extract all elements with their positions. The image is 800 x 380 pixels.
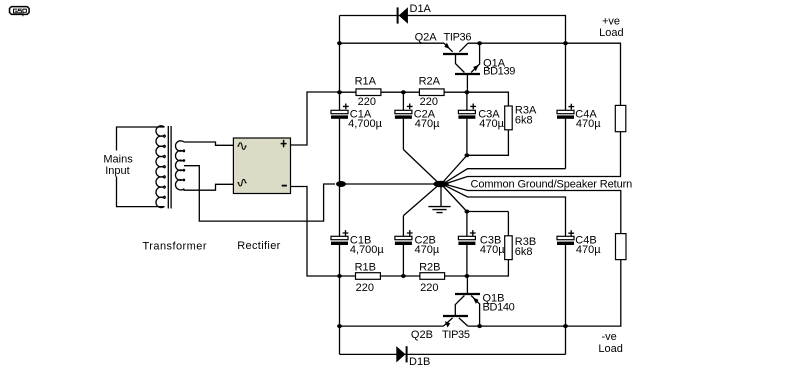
svg-text:BD140: BD140	[483, 302, 515, 314]
label C4A	[575, 108, 597, 120]
diode D1A	[398, 7, 408, 23]
node ground junction on left rail	[336, 181, 346, 187]
svg-text:470µ: 470µ	[479, 118, 504, 130]
svg-text:-ve: -ve	[602, 331, 617, 343]
svg-text:6k8: 6k8	[515, 114, 533, 126]
wire fan to -ve load top	[448, 185, 621, 234]
label R1A	[355, 75, 377, 87]
wire fan to C4B top	[447, 186, 566, 236]
label TIP35	[442, 329, 470, 341]
label C3B	[480, 235, 501, 247]
wire secondary center tap to ground node	[184, 166, 335, 221]
svg-text:220: 220	[358, 96, 376, 108]
label C1B	[350, 235, 371, 247]
wire negative raw rail y326 left segment	[340, 325, 444, 327]
wire positive output rail y43 right segment	[468, 43, 621, 105]
wire C3A node diagonal to blob	[444, 155, 467, 181]
wire ground wire from left rail to blob	[340, 183, 442, 185]
label C4A value 470u	[576, 118, 601, 130]
label R3A value 6k8	[515, 114, 533, 126]
svg-text:D1A: D1A	[410, 3, 432, 15]
label Mains Input	[103, 153, 133, 176]
label C3A	[478, 109, 500, 121]
label R2B	[419, 261, 440, 273]
label C2A value 470u	[415, 118, 440, 130]
svg-text:4,700µ: 4,700µ	[348, 118, 383, 130]
capacitor C4A	[557, 104, 574, 169]
label R1B value 220	[356, 282, 374, 294]
svg-text:R2B: R2B	[419, 261, 440, 273]
transformer primary winding	[156, 126, 165, 208]
svg-text:R2A: R2A	[419, 75, 441, 87]
label Q1A	[483, 57, 506, 69]
capacitor C1A	[331, 104, 349, 119]
svg-text:BD139: BD139	[483, 65, 515, 77]
label Q2B	[411, 329, 433, 341]
svg-text:TIP35: TIP35	[442, 329, 470, 341]
label R3A	[515, 105, 537, 117]
resistor R2A	[419, 89, 444, 96]
label Load top	[599, 27, 623, 39]
svg-text:Q2B: Q2B	[411, 329, 433, 341]
resistor -ve load	[616, 234, 627, 260]
transistor Q2B TIP35	[443, 316, 468, 328]
wire positive raw rail y43 left segment	[340, 42, 445, 44]
svg-text:R1B: R1B	[355, 261, 376, 273]
label Q1B	[483, 293, 505, 305]
resistor R1B	[356, 273, 381, 280]
svg-text:470µ: 470µ	[480, 244, 505, 256]
svg-text:470µ: 470µ	[576, 244, 601, 256]
label R1B	[355, 261, 376, 273]
label C2A	[414, 109, 436, 121]
diode D1B	[396, 346, 406, 362]
label C4B value 470u	[576, 244, 601, 256]
rectifier U1	[233, 138, 290, 194]
label R2A	[419, 75, 441, 87]
label R1A value 220	[358, 96, 376, 108]
label C1A	[350, 109, 372, 121]
svg-text:Rectifier: Rectifier	[237, 240, 281, 252]
svg-text:220: 220	[420, 282, 438, 294]
label Transformer	[143, 241, 207, 253]
svg-text:Common Ground/Speaker Return: Common Ground/Speaker Return	[471, 178, 633, 190]
svg-text:220: 220	[356, 282, 374, 294]
label Rectifier	[237, 240, 281, 252]
wire top R-wire y92	[340, 92, 509, 106]
label -ve	[602, 331, 617, 343]
svg-text:R1A: R1A	[355, 75, 377, 87]
ground	[428, 187, 450, 213]
label Common Ground/Speaker Return	[471, 178, 633, 190]
capacitor C3A	[458, 92, 476, 155]
label Load bottom	[598, 343, 622, 355]
label R2B value 220	[420, 282, 438, 294]
label C4B	[575, 234, 596, 246]
svg-text:470µ: 470µ	[415, 118, 440, 130]
svg-text:470µ: 470µ	[415, 244, 440, 256]
wire C2A bottom diagonal to blob	[403, 150, 438, 183]
svg-text:D1B: D1B	[409, 356, 430, 368]
wire top rail with diode bypass	[340, 16, 566, 111]
resistor R1A	[356, 89, 381, 96]
wire bottom rail with diode bypass	[340, 353, 566, 355]
wire rectifier + output to left rail	[291, 92, 340, 145]
capacitor C2A	[395, 92, 413, 149]
svg-text:4,700µ: 4,700µ	[350, 244, 385, 256]
capacitor C4B	[557, 230, 574, 354]
label TIP36	[444, 31, 472, 43]
svg-text:+ve: +ve	[602, 15, 620, 27]
label R2A value 220	[420, 96, 438, 108]
svg-text:Input: Input	[105, 165, 129, 177]
capacitor C3B	[458, 212, 475, 277]
node junction dots	[337, 41, 568, 328]
label D1B	[409, 356, 430, 368]
wire fan to +ve load bottom	[448, 132, 621, 183]
wire rectifier - output to bottom R wire	[291, 187, 340, 277]
svg-text:220: 220	[420, 96, 438, 108]
transistor Q1B BD140	[455, 276, 480, 326]
wire C3B node diagonal to blob	[444, 187, 467, 212]
resistor R2B	[420, 273, 445, 280]
label BD139	[483, 65, 515, 77]
svg-text:Load: Load	[599, 27, 623, 39]
svg-text:470µ: 470µ	[576, 118, 601, 130]
wire secondary top lead to rectifier	[184, 142, 233, 145]
wire left rail vertical	[339, 16, 341, 355]
wire fan to C4A bottom	[447, 169, 566, 182]
label D1A	[410, 3, 432, 15]
label +ve	[602, 15, 620, 27]
label C3B value 470u	[480, 244, 505, 256]
label C2B value 470u	[415, 244, 440, 256]
label C3A value 470u	[479, 118, 504, 130]
svg-text:TIP36: TIP36	[444, 31, 472, 43]
capacitor C2B	[395, 216, 413, 276]
label BD140	[483, 302, 515, 314]
node common ground blob	[433, 181, 448, 188]
label R3B value 6k8	[515, 246, 533, 258]
label C1B value 4,700u	[350, 244, 385, 256]
transformer primary bracket (Mains Input)	[117, 127, 165, 207]
wire C2B top diagonal to blob	[403, 186, 438, 216]
resistor R3B	[467, 212, 512, 260]
svg-text:6k8: 6k8	[515, 246, 533, 258]
wire bottom R-wire y276	[340, 260, 509, 276]
label R3B	[515, 236, 536, 248]
svg-text:Q2A: Q2A	[415, 31, 438, 43]
transformer secondary winding	[175, 141, 184, 190]
svg-text:Load: Load	[598, 343, 622, 355]
transistor Q2A TIP36	[443, 43, 468, 73]
transistor Q1A BD139	[455, 43, 480, 92]
capacitor C1B	[331, 230, 348, 245]
label C2B	[415, 235, 436, 247]
wire secondary bottom lead to rectifier	[184, 184, 233, 190]
label C1A value 4,700u	[348, 118, 383, 130]
resistor +ve load	[615, 105, 626, 131]
transformer core	[168, 126, 171, 209]
label Q2A	[415, 31, 438, 43]
ESP logo	[10, 7, 30, 17]
svg-text:Transformer: Transformer	[143, 241, 207, 253]
svg-text:Mains: Mains	[103, 153, 133, 165]
resistor R3A	[467, 106, 512, 155]
wire negative output rail y326 right segment	[468, 260, 621, 327]
